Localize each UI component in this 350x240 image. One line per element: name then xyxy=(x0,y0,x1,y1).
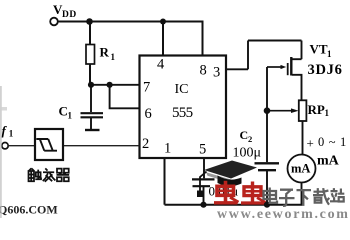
watermark gray char 载 xyxy=(313,188,329,205)
wire pin3 up xyxy=(247,41,249,70)
terminal VDD xyxy=(50,18,58,26)
svg-text:3: 3 xyxy=(213,64,220,80)
watermark gray char 站 xyxy=(330,188,344,201)
svg-text:8: 8 xyxy=(200,62,207,78)
label VT1 xyxy=(310,42,333,60)
label C1 xyxy=(59,104,73,121)
svg-text:mA: mA xyxy=(317,154,340,169)
watermark cap tassel xyxy=(200,172,207,191)
label f1 xyxy=(2,123,14,139)
svg-text:1: 1 xyxy=(9,128,14,138)
wire RP1 to meter xyxy=(302,121,304,155)
svg-text:2: 2 xyxy=(142,136,149,152)
scan artifact left edge xyxy=(0,86,2,218)
node C2 rail junction xyxy=(264,202,270,208)
wiper arrowhead xyxy=(291,108,299,113)
node gate-wiper junction xyxy=(264,107,271,114)
scan artifact smudge xyxy=(0,107,7,111)
wire f1 to trigger xyxy=(8,145,35,147)
svg-text:4: 4 xyxy=(157,57,165,73)
node C3 rail junction xyxy=(200,202,206,208)
ground bar under C1 xyxy=(85,129,100,131)
wire drain loop top xyxy=(248,40,302,42)
svg-text:100μ: 100μ xyxy=(233,146,262,161)
wire pin4 lead xyxy=(162,22,164,56)
watermark cap edge highlight xyxy=(206,172,231,183)
wire C1 top lead xyxy=(90,85,92,112)
label trigger 器 xyxy=(57,169,70,182)
wire C2 top lead xyxy=(266,111,268,163)
svg-text:2: 2 xyxy=(248,134,252,144)
wire pin2 input xyxy=(63,145,140,147)
svg-text:C: C xyxy=(240,128,249,142)
wire R1 top lead xyxy=(89,22,91,45)
resistor R1 xyxy=(86,45,95,65)
watermark graduation cap board xyxy=(204,161,257,179)
label trigger 触 xyxy=(29,168,42,181)
transistor VT1 xyxy=(267,57,302,100)
terminal f1 xyxy=(2,143,8,149)
capacitor C1 xyxy=(81,113,104,117)
label RP1 xyxy=(308,102,330,118)
wire node to pin7 xyxy=(91,84,140,86)
capacitor C3 0.01u xyxy=(192,179,215,186)
svg-text:7: 7 xyxy=(143,80,150,96)
svg-text:RP: RP xyxy=(308,102,325,117)
wire C3 bottom lead xyxy=(203,187,205,205)
svg-text:DD: DD xyxy=(62,10,77,20)
capacitor C2 xyxy=(255,163,280,170)
label trigger 发 xyxy=(43,168,56,181)
node pin6 branch junction xyxy=(107,82,113,88)
potentiometer RP1 xyxy=(299,100,307,121)
hysteresis symbol xyxy=(36,139,57,151)
svg-text:1: 1 xyxy=(68,111,73,121)
svg-text:1: 1 xyxy=(325,108,330,118)
wire C2 bottom lead xyxy=(266,171,268,205)
svg-text:0~1: 0~1 xyxy=(318,135,350,149)
wire bottom rail xyxy=(165,204,303,206)
svg-text:Q606.COM: Q606.COM xyxy=(0,202,58,216)
watermark cap head xyxy=(218,176,242,187)
wire wiper arm xyxy=(267,110,292,112)
label C2 xyxy=(240,128,253,144)
trigger box xyxy=(35,129,63,160)
node pin4 rail junction xyxy=(160,19,166,25)
svg-text:VT: VT xyxy=(310,42,328,57)
wire R1 bottom lead xyxy=(89,64,91,85)
svg-text:1: 1 xyxy=(164,141,171,157)
watermark red bug char 2 xyxy=(241,182,266,204)
watermark cap tassel knot xyxy=(197,191,204,198)
watermark red bug char 1 xyxy=(214,181,239,203)
svg-text:6: 6 xyxy=(145,106,152,122)
svg-text:3DJ6: 3DJ6 xyxy=(308,62,343,78)
svg-text:www.eeworm.com: www.eeworm.com xyxy=(217,207,350,220)
wire drain down xyxy=(301,41,303,60)
wire C1 bottom lead xyxy=(90,118,92,129)
wire meter bottom lead xyxy=(301,183,303,205)
watermark gray char 子 xyxy=(279,190,295,206)
op IC 555 box xyxy=(140,56,227,159)
label R1 xyxy=(100,45,116,63)
svg-text:5: 5 xyxy=(199,142,206,158)
watermark gray char 下 xyxy=(297,190,312,206)
wire gate down xyxy=(266,67,268,111)
wire pin1 lead xyxy=(164,158,166,205)
wire pin8 lead xyxy=(202,21,204,56)
watermark gray char 电 xyxy=(264,188,278,203)
node R1-C1 junction xyxy=(88,82,94,88)
svg-text:mA: mA xyxy=(291,162,310,176)
wire pin3 lead xyxy=(226,68,248,70)
wire top rail xyxy=(57,21,202,23)
svg-text:+: + xyxy=(307,136,314,151)
svg-text:1: 1 xyxy=(111,52,116,62)
wire pin5 lead xyxy=(203,158,205,178)
wire pin6 jog xyxy=(110,85,140,109)
svg-text:IC: IC xyxy=(175,82,189,97)
svg-text:1: 1 xyxy=(327,49,332,59)
node R1 top junction xyxy=(86,18,93,25)
svg-text:C: C xyxy=(59,104,68,119)
svg-text:555: 555 xyxy=(172,105,193,121)
label VDD xyxy=(53,2,77,20)
svg-text:R: R xyxy=(100,45,110,60)
meter mA xyxy=(288,155,316,183)
